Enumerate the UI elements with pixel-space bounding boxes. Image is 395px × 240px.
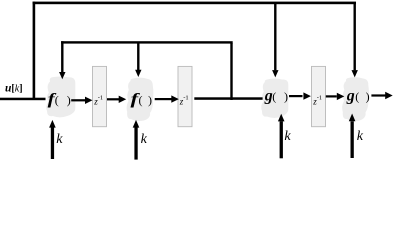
svg-text:g: g (346, 87, 355, 104)
svg-text:( ): ( ) (272, 89, 290, 103)
svg-text:u[k]: u[k] (5, 83, 23, 95)
svg-text:( ): ( ) (139, 93, 154, 107)
svg-text:( ): ( ) (355, 89, 371, 103)
svg-text:k: k (56, 132, 63, 147)
svg-text:( ): ( ) (55, 93, 74, 107)
svg-text:k: k (141, 132, 148, 147)
svg-text:k: k (357, 129, 364, 144)
svg-text:k: k (284, 129, 291, 144)
